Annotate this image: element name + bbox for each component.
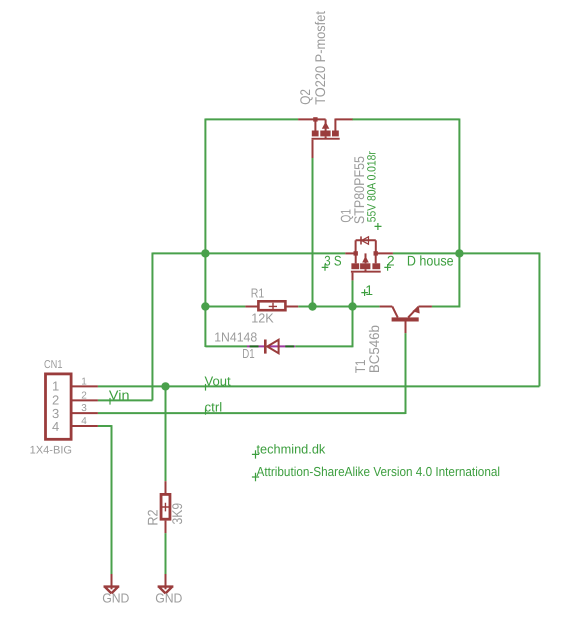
svg-text:4: 4 [52, 419, 59, 434]
wire R2 bottom vertical [165, 533, 167, 574]
wire Q1 gate vertical [352, 280, 354, 306]
svg-text:2: 2 [81, 390, 87, 401]
svg-text:4: 4 [81, 416, 87, 427]
net label Vout origin tick [205, 384, 207, 391]
wire T1 emitter to right rail [432, 306, 460, 308]
wire D1 to R1 junction vertical [352, 306, 354, 348]
wire D1 row left [205, 345, 247, 347]
node junction (459,253) [455, 249, 463, 257]
node junction (205,306) [201, 302, 209, 310]
wire R1 row right [298, 306, 379, 308]
transistor T1 BC546b [380, 306, 432, 333]
svg-text:Vout: Vout [205, 373, 232, 388]
svg-text:Q2: Q2 [297, 89, 313, 105]
pin cross 1 [361, 289, 368, 296]
svg-text:GND: GND [155, 591, 182, 606]
ground GND right [158, 574, 174, 593]
wire right vertical x=459 [432, 119, 460, 307]
node junction (352,306) [348, 302, 356, 310]
svg-text:12K: 12K [251, 310, 274, 325]
node junction (312,306) [308, 302, 316, 310]
pin cross 2 [384, 264, 391, 271]
wire pin4 row [98, 425, 112, 427]
wire left vertical x=205 [204, 119, 206, 348]
svg-text:3K9: 3K9 [169, 503, 185, 525]
svg-text:CN1: CN1 [44, 359, 63, 371]
wire D1 row right [295, 345, 352, 347]
svg-text:3: 3 [81, 403, 87, 414]
svg-text:1: 1 [52, 379, 59, 394]
diode D1 1N4148 [247, 340, 295, 354]
svg-text:Attribution-ShareAlike Version: Attribution-ShareAlike Version 4.0 Inter… [257, 464, 501, 479]
wire source row left [152, 252, 345, 254]
svg-text:1: 1 [365, 282, 373, 298]
wire Vout row [98, 385, 540, 387]
wire ctrl vertical to T1 base [405, 333, 407, 414]
wire far right vertical x=539 [538, 253, 540, 387]
ground GND left [104, 574, 120, 593]
wire ctrl row [98, 412, 406, 414]
wire left gnd vertical [111, 425, 113, 574]
svg-text:1N4148: 1N4148 [214, 330, 257, 345]
svg-text:BC546b: BC546b [366, 325, 382, 373]
connector CN1 [46, 374, 98, 439]
wire drain row right [393, 252, 540, 254]
net label ctrl origin tick [205, 409, 207, 415]
svg-text:techmind.dk: techmind.dk [257, 442, 326, 457]
label origin cross for 55V [375, 223, 382, 230]
svg-text:Vin: Vin [109, 387, 130, 402]
wire Vin row [98, 399, 153, 401]
transistor Q2 TO220 P-mosfet [298, 117, 352, 158]
svg-text:R1: R1 [251, 285, 264, 300]
svg-text:D1: D1 [242, 346, 254, 361]
svg-text:GND: GND [102, 591, 129, 606]
net label Vin origin tick [109, 398, 111, 405]
wire Q2 gate vertical [312, 158, 314, 307]
wire top rail left [205, 118, 298, 120]
wire R1 row left [205, 306, 245, 308]
node junction (165,386) [161, 382, 169, 390]
wire top rail right [352, 118, 459, 120]
svg-text:55V 80A 0.018r: 55V 80A 0.018r [364, 151, 378, 222]
resistor R2 [161, 481, 170, 533]
text license origin cross [252, 473, 259, 481]
resistor R1 [245, 301, 298, 310]
svg-text:1: 1 [81, 376, 87, 387]
svg-text:3 S: 3 S [324, 253, 341, 269]
text techmind origin cross [252, 450, 259, 458]
svg-text:1X4-BIG: 1X4-BIG [30, 445, 72, 457]
svg-text:ctrl: ctrl [205, 399, 223, 414]
svg-text:D house: D house [407, 253, 454, 269]
wire vin vertical x=152 [151, 253, 153, 401]
node junction (205,253) [201, 249, 209, 257]
svg-text:TO220 P-mosfet: TO220 P-mosfet [312, 11, 328, 105]
svg-text:R2: R2 [144, 509, 160, 525]
pin cross 3 [322, 264, 329, 271]
wire R2 top vertical [165, 386, 167, 482]
transistor Q1 STP80PF55 [345, 236, 393, 280]
